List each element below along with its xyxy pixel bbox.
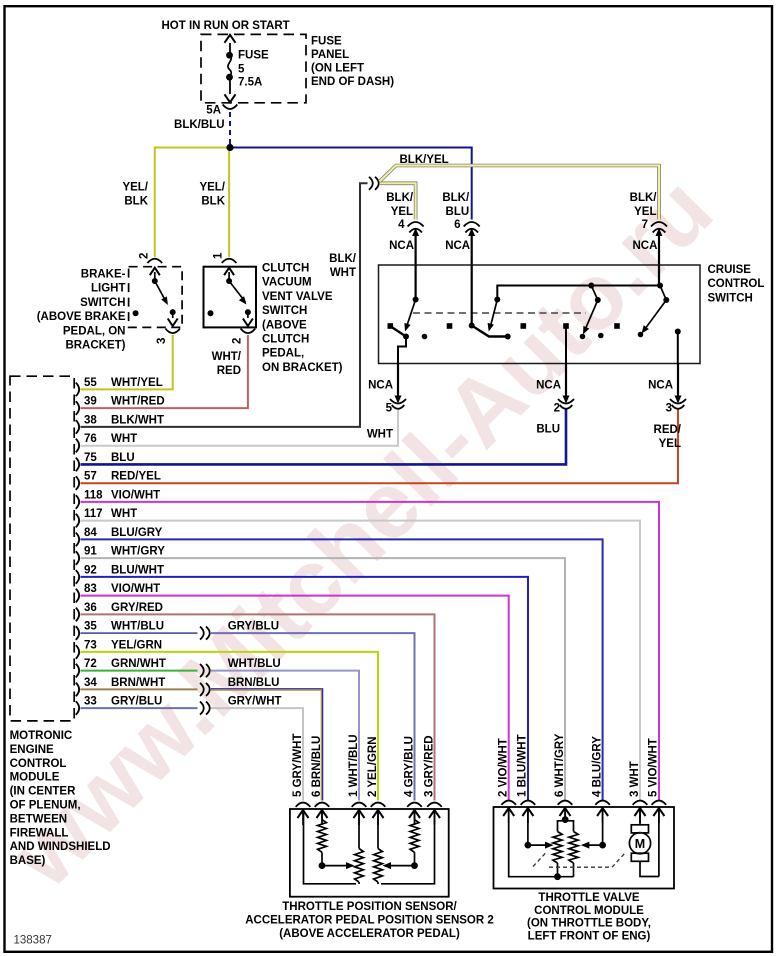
svg-text:3: 3 <box>666 403 672 415</box>
wire VIO/WHT <box>81 596 509 801</box>
svg-text:BLK/: BLK/ <box>386 192 414 204</box>
svg-text:HOT IN RUN OR START: HOT IN RUN OR START <box>162 20 290 32</box>
TPS resistor R3 <box>377 811 379 849</box>
cruise switch contact set 2 <box>471 265 473 326</box>
svg-text:GRY/BLU: GRY/BLU <box>228 621 279 633</box>
svg-text:39: 39 <box>84 396 97 408</box>
svg-text:M: M <box>635 837 645 851</box>
svg-text:118: 118 <box>84 489 103 501</box>
svg-text:ENGINE: ENGINE <box>10 744 54 756</box>
TPS resistor R1 <box>321 811 323 820</box>
throttle valve control module box <box>494 807 675 889</box>
svg-text:BLK/: BLK/ <box>442 192 470 204</box>
svg-text:GRY/RED: GRY/RED <box>111 602 163 614</box>
svg-text:CONTROL: CONTROL <box>708 278 765 290</box>
svg-text:GRY/WHT: GRY/WHT <box>228 696 282 708</box>
ECM pin 34 <box>76 683 79 697</box>
TVCM motor M <box>631 825 648 833</box>
svg-text:LEFT FRONT OF ENG): LEFT FRONT OF ENG) <box>528 930 651 942</box>
svg-text:CONTROL: CONTROL <box>10 758 67 770</box>
wire GRY/RED <box>81 614 435 800</box>
svg-text:VIO/WHT: VIO/WHT <box>111 489 160 501</box>
svg-text:FUSE: FUSE <box>311 35 342 47</box>
svg-text:THROTTLE POSITION SENSOR/: THROTTLE POSITION SENSOR/ <box>282 901 457 913</box>
svg-text:FIREWALL: FIREWALL <box>10 827 69 839</box>
TVCM pin 6 WHT/GRY <box>558 801 573 805</box>
ECM pin 35 <box>76 626 79 640</box>
svg-text:BRN/WHT: BRN/WHT <box>111 677 165 689</box>
svg-text:BASE): BASE) <box>10 855 46 867</box>
svg-text:VENT VALVE: VENT VALVE <box>262 291 333 303</box>
wire WHT/BLU <box>211 671 359 801</box>
cruise switch contact set 3 <box>588 283 594 289</box>
svg-text:35: 35 <box>84 621 97 633</box>
svg-text:RED/: RED/ <box>654 424 682 436</box>
svg-text:75: 75 <box>84 452 97 464</box>
svg-text:LIGHT: LIGHT <box>91 283 126 295</box>
svg-text:WHT/YEL: WHT/YEL <box>111 377 163 389</box>
svg-text:SWITCH: SWITCH <box>262 305 307 317</box>
splice GRY/BLU to GRY/WHT <box>200 702 204 715</box>
motronic engine control module connector box (dashed) <box>10 376 74 721</box>
TPS pin 5 GRY/WHT <box>296 803 311 807</box>
TPS internal: pin5 rail <box>304 811 357 884</box>
ECM pin 33 <box>76 701 79 715</box>
svg-text:36: 36 <box>84 602 97 614</box>
svg-text:WHT: WHT <box>330 267 356 279</box>
svg-text:BRACKET): BRACKET) <box>65 340 125 352</box>
svg-text:YEL/GRN: YEL/GRN <box>111 639 162 651</box>
svg-text:138387: 138387 <box>14 935 52 947</box>
svg-text:BLU: BLU <box>446 206 470 218</box>
wire WHT/YEL <box>81 335 173 389</box>
ECM pin 73 <box>76 645 79 659</box>
svg-text:NCA: NCA <box>536 380 561 392</box>
svg-text:YEL/: YEL/ <box>199 182 225 194</box>
junction node <box>226 144 233 151</box>
TPS pin 4 GRY/BLU <box>407 803 422 807</box>
svg-text:6: 6 <box>454 219 460 231</box>
cruise switch internal linkage (dashed) <box>413 312 586 314</box>
svg-text:AND WINDSHIELD: AND WINDSHIELD <box>10 841 111 853</box>
svg-text:7.5A: 7.5A <box>238 77 262 89</box>
svg-text:NCA: NCA <box>648 380 673 392</box>
svg-text:END OF DASH): END OF DASH) <box>311 76 394 88</box>
svg-text:1 WHT/BLU: 1 WHT/BLU <box>348 734 360 797</box>
wire BLK/BLU to cruise pin 6 <box>230 148 472 220</box>
splice GRN/WHT to WHT/BLU <box>200 664 204 677</box>
wire YEL/BLK to clutch switch <box>228 148 230 258</box>
svg-text:YEL: YEL <box>391 206 413 218</box>
svg-text:BRAKE-: BRAKE- <box>81 269 126 281</box>
svg-text:NCA: NCA <box>368 380 393 392</box>
svg-text:1: 1 <box>213 252 225 259</box>
TVCM mechanical linkage (dashed) <box>533 852 547 867</box>
ECM pin 57 <box>76 476 79 490</box>
inline connector (splice) <box>369 177 373 190</box>
svg-text:GRN/WHT: GRN/WHT <box>111 658 166 670</box>
TPS resistor R4 <box>414 811 416 820</box>
ECM pin 84 <box>76 533 79 547</box>
svg-text:BLU/WHT: BLU/WHT <box>111 564 164 576</box>
TPS pin 3 GRY/RED <box>427 803 442 807</box>
cruise control switch box <box>379 265 701 364</box>
svg-text:2: 2 <box>139 253 151 259</box>
svg-text:RED: RED <box>217 365 241 377</box>
svg-text:ON BRACKET): ON BRACKET) <box>262 362 343 374</box>
TVCM pin 5 VIO/WHT <box>652 801 667 805</box>
ECM pin 118 <box>76 495 79 509</box>
wire BRN/WHT <box>81 688 198 690</box>
svg-text:117: 117 <box>84 508 103 520</box>
TPS pin 6 BRN/BLU <box>315 803 330 807</box>
wire BLK/BLU (dashed) <box>229 112 231 145</box>
cruise switch pin 3 contact <box>675 329 681 335</box>
svg-text:CONTROL MODULE: CONTROL MODULE <box>534 905 644 917</box>
svg-text:57: 57 <box>84 471 97 483</box>
clutch switch contacts <box>228 272 230 281</box>
svg-text:5 VIO/WHT: 5 VIO/WHT <box>648 738 660 797</box>
svg-text:PEDAL, ON: PEDAL, ON <box>63 325 126 337</box>
TPS wiper 1 <box>319 862 326 869</box>
svg-text:PANEL: PANEL <box>311 49 349 61</box>
svg-text:BLK/YEL: BLK/YEL <box>400 154 449 166</box>
wire WHT <box>81 521 641 801</box>
fuse panel box (dashed) <box>201 34 306 102</box>
svg-text:YEL: YEL <box>634 206 656 218</box>
svg-text:38: 38 <box>84 414 97 426</box>
svg-text:VACUUM: VACUUM <box>262 277 312 289</box>
svg-text:CLUTCH: CLUTCH <box>262 334 309 346</box>
brake switch contacts <box>154 272 156 281</box>
ECM pin 83 <box>76 589 79 603</box>
svg-text:83: 83 <box>84 583 97 595</box>
svg-text:BLK/: BLK/ <box>329 253 357 265</box>
svg-text:34: 34 <box>84 677 97 689</box>
connector cup at fuse panel <box>223 105 238 110</box>
svg-text:BLU: BLU <box>536 424 560 436</box>
brake switch pin 3 <box>165 329 180 334</box>
svg-text:33: 33 <box>84 696 97 708</box>
svg-text:SWITCH: SWITCH <box>80 297 125 309</box>
wire WHT/BLU <box>81 632 198 634</box>
svg-text:NCA: NCA <box>389 240 414 252</box>
cruise switch contact set 4 <box>658 265 660 286</box>
svg-text:BLK/BLU: BLK/BLU <box>174 119 224 131</box>
TPS pin 2 YEL/GRN <box>371 803 386 807</box>
TVCM pin 4 BLU/GRY <box>595 801 610 805</box>
wire GRY/BLU <box>81 707 198 709</box>
wire WHT from cruise pin 5 <box>81 410 399 446</box>
svg-text:BRN/BLU: BRN/BLU <box>228 677 280 689</box>
svg-text:NCA: NCA <box>633 240 658 252</box>
svg-text:WHT/BLU: WHT/BLU <box>228 658 281 670</box>
svg-text:3: 3 <box>156 338 168 344</box>
TVCM potentiometer <box>564 808 566 820</box>
clutch vacuum vent valve switch box <box>204 267 257 328</box>
svg-text:RED/YEL: RED/YEL <box>111 471 161 483</box>
TPS pin 1 WHT/BLU <box>352 803 367 807</box>
svg-text:WHT/RED: WHT/RED <box>111 396 165 408</box>
svg-text:WHT: WHT <box>111 508 137 520</box>
svg-text:91: 91 <box>84 546 97 558</box>
wire VIO/WHT <box>81 502 660 801</box>
svg-text:FUSE: FUSE <box>238 50 269 62</box>
svg-text:5A: 5A <box>206 105 221 117</box>
svg-text:NCA: NCA <box>445 240 470 252</box>
TVCM internal: pin2 to pot bottom <box>509 808 574 877</box>
svg-text:PEDAL,: PEDAL, <box>262 348 304 360</box>
svg-text:VIO/WHT: VIO/WHT <box>111 583 160 595</box>
TPS internal: pin3 rail <box>381 811 435 884</box>
svg-text:2 YEL/GRN: 2 YEL/GRN <box>367 737 379 798</box>
svg-text:BLU/GRY: BLU/GRY <box>111 527 163 539</box>
ECM pin 91 <box>76 551 79 565</box>
svg-text:4 BLU/GRY: 4 BLU/GRY <box>591 736 603 797</box>
TPS wiper 2 <box>411 862 418 869</box>
ECM pin 72 <box>76 664 79 678</box>
TPS resistor R2 <box>358 811 360 849</box>
wire BLU/WHT <box>81 577 529 801</box>
wire BLU/GRY <box>81 539 603 800</box>
svg-text:WHT/: WHT/ <box>212 351 242 363</box>
wire BLK/YEL to cruise pin 4 <box>380 183 416 219</box>
wire GRN/WHT <box>81 670 198 672</box>
svg-text:3 GRY/RED: 3 GRY/RED <box>423 735 435 797</box>
TVCM wiper 1 (pin 1) <box>527 808 529 845</box>
brake light switch box <box>129 267 183 328</box>
svg-text:2: 2 <box>554 403 560 415</box>
svg-text:84: 84 <box>84 527 97 539</box>
ECM pin 39 <box>76 401 79 415</box>
svg-text:(ABOVE: (ABOVE <box>262 319 307 331</box>
svg-text:WHT/GRY: WHT/GRY <box>111 546 165 558</box>
wire BRN/BLU <box>211 689 323 801</box>
svg-text:BLK/: BLK/ <box>630 192 658 204</box>
svg-text:2: 2 <box>232 338 244 344</box>
svg-text:2 VIO/WHT: 2 VIO/WHT <box>498 738 510 797</box>
svg-text:ACCELERATOR PEDAL POSITION SEN: ACCELERATOR PEDAL POSITION SENSOR 2 <box>245 915 494 927</box>
wire YEL/BLK to brake light switch <box>155 148 230 258</box>
svg-text:(IN CENTER: (IN CENTER <box>10 786 77 798</box>
ECM pin 117 <box>76 514 79 528</box>
svg-text:55: 55 <box>84 377 97 389</box>
throttle position sensor box <box>290 809 449 897</box>
svg-text:(ABOVE ACCELERATOR PEDAL): (ABOVE ACCELERATOR PEDAL) <box>279 928 460 940</box>
svg-text:MOTRONIC: MOTRONIC <box>10 730 73 742</box>
svg-text:BLK: BLK <box>201 196 225 208</box>
ECM pin 76 <box>76 439 79 453</box>
ECM pin 55 <box>76 383 79 397</box>
svg-text:CLUTCH: CLUTCH <box>262 263 309 275</box>
TVCM pin 1 BLU/WHT <box>521 801 536 805</box>
cruise switch pin 2 contact <box>563 323 569 329</box>
svg-text:GRY/BLU: GRY/BLU <box>111 696 162 708</box>
svg-text:BLU: BLU <box>111 452 135 464</box>
svg-text:BLK/WHT: BLK/WHT <box>111 414 164 426</box>
svg-text:THROTTLE VALVE: THROTTLE VALVE <box>538 892 639 904</box>
svg-text:1 BLU/WHT: 1 BLU/WHT <box>517 734 529 797</box>
svg-text:SWITCH: SWITCH <box>708 292 753 304</box>
cruise switch contact set 1 <box>415 265 417 300</box>
wire BLK/WHT <box>81 183 368 427</box>
svg-text:6 WHT/GRY: 6 WHT/GRY <box>554 733 566 797</box>
svg-text:(ON LEFT: (ON LEFT <box>311 62 364 74</box>
wire GRY/WHT <box>211 708 303 800</box>
ECM pin 75 <box>76 458 79 472</box>
ECM pin 92 <box>76 570 79 584</box>
TVCM pin 3 WHT <box>633 801 648 805</box>
TVCM internal: motor to pin5 <box>640 861 659 876</box>
wire YEL/GRN <box>81 652 379 801</box>
svg-text:4: 4 <box>398 219 405 231</box>
svg-text:92: 92 <box>84 564 97 576</box>
TVCM wiper 2 (pin 4) <box>602 808 604 845</box>
svg-text:5 GRY/WHT: 5 GRY/WHT <box>292 734 304 797</box>
svg-text:73: 73 <box>84 639 97 651</box>
svg-text:5: 5 <box>238 64 245 76</box>
svg-text:OF PLENUM,: OF PLENUM, <box>10 800 81 812</box>
wire BLK/YEL to cruise pin 7 <box>380 166 660 220</box>
svg-text:3 WHT: 3 WHT <box>629 761 641 797</box>
ECM pin 38 <box>76 420 79 434</box>
splice BRN/WHT to BRN/BLU <box>200 683 204 696</box>
wire WHT/GRY <box>81 558 566 800</box>
wire GRY/BLU <box>211 633 415 800</box>
svg-text:YEL/: YEL/ <box>122 182 148 194</box>
svg-text:WHT/BLU: WHT/BLU <box>111 621 164 633</box>
TVCM pin 2 VIO/WHT <box>501 801 516 805</box>
svg-text:6 BRN/BLU: 6 BRN/BLU <box>311 736 323 797</box>
svg-text:MODULE: MODULE <box>10 772 60 784</box>
svg-text:7: 7 <box>642 219 648 231</box>
wire BLU from cruise pin 2 <box>81 410 567 465</box>
svg-text:BLK: BLK <box>124 196 148 208</box>
wire RED/YEL from cruise pin 3 <box>81 410 679 484</box>
svg-text:WHT: WHT <box>367 429 393 441</box>
svg-text:YEL: YEL <box>659 438 681 450</box>
fuse 5 7.5A <box>229 43 231 55</box>
clutch switch pin 2 <box>241 329 256 334</box>
svg-text:(ABOVE BRAKE: (ABOVE BRAKE <box>37 311 126 323</box>
svg-text:WHT: WHT <box>111 433 137 445</box>
svg-text:BETWEEN: BETWEEN <box>10 813 68 825</box>
ECM pin 36 <box>76 608 79 622</box>
svg-text:4 GRY/BLU: 4 GRY/BLU <box>403 736 415 797</box>
svg-text:72: 72 <box>84 658 97 670</box>
svg-text:(ON THROTTLE BODY,: (ON THROTTLE BODY, <box>527 918 651 930</box>
svg-text:76: 76 <box>84 433 97 445</box>
svg-text:CRUISE: CRUISE <box>708 264 752 276</box>
splice WHT/BLU to GRY/BLU <box>200 627 204 640</box>
wire WHT/RED <box>81 335 248 408</box>
svg-text:5: 5 <box>386 403 393 415</box>
